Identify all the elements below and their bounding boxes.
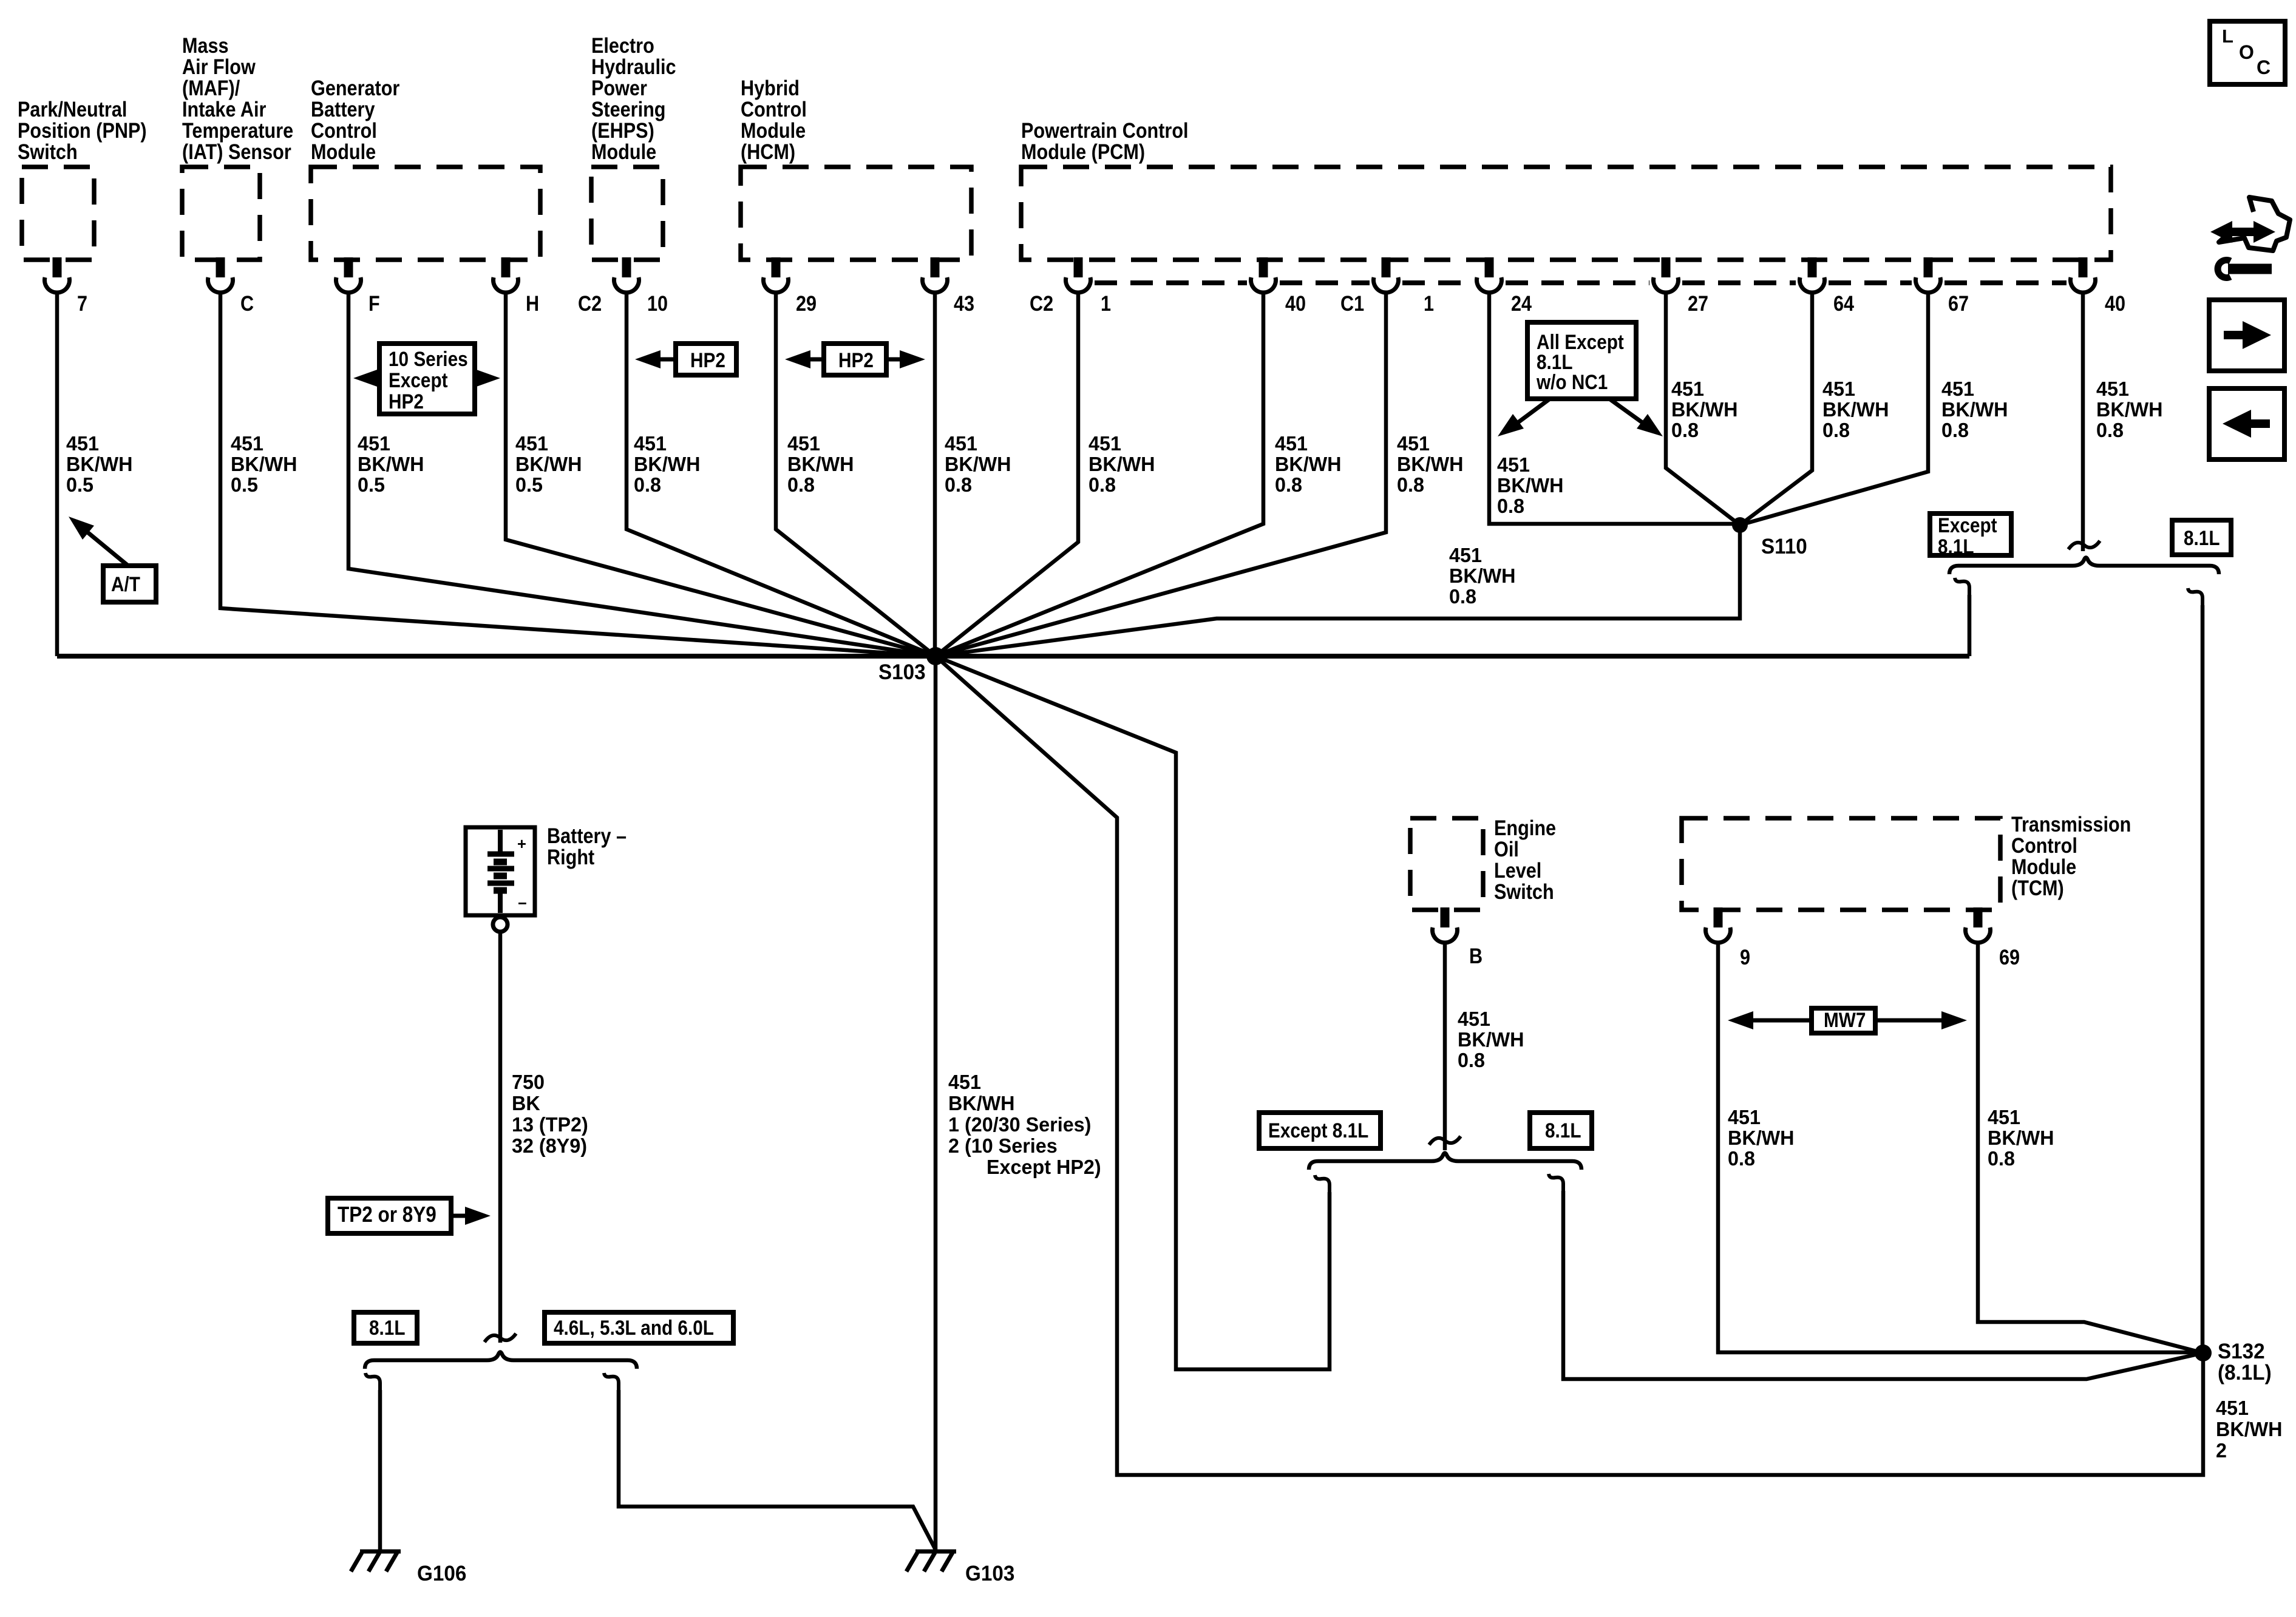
svg-text:Air Flow: Air Flow bbox=[182, 55, 256, 78]
svg-text:29: 29 bbox=[796, 291, 817, 315]
svg-text:Electro: Electro bbox=[591, 33, 654, 57]
svg-text:32 (8Y9): 32 (8Y9) bbox=[512, 1134, 587, 1157]
svg-text:BK/WH: BK/WH bbox=[1458, 1028, 1524, 1051]
svg-text:1: 1 bbox=[1424, 291, 1434, 315]
svg-text:BK/WH: BK/WH bbox=[358, 453, 424, 475]
svg-text:S132: S132 bbox=[2218, 1340, 2265, 1363]
svg-text:0.5: 0.5 bbox=[515, 473, 543, 496]
svg-text:10 Series: 10 Series bbox=[389, 347, 468, 370]
svg-text:BK/WH: BK/WH bbox=[2096, 398, 2163, 421]
svg-text:451: 451 bbox=[66, 432, 99, 455]
svg-text:BK/WH: BK/WH bbox=[2216, 1418, 2283, 1440]
svg-text:40: 40 bbox=[2105, 291, 2125, 315]
svg-text:2: 2 bbox=[2216, 1439, 2227, 1462]
svg-text:BK/WH: BK/WH bbox=[1941, 398, 2008, 421]
svg-text:BK/WH: BK/WH bbox=[231, 453, 297, 475]
svg-text:13 (TP2): 13 (TP2) bbox=[512, 1113, 588, 1136]
svg-text:L: L bbox=[2222, 25, 2233, 47]
svg-text:BK/WH: BK/WH bbox=[1089, 453, 1155, 475]
svg-text:451: 451 bbox=[515, 432, 548, 455]
svg-text:451: 451 bbox=[358, 432, 390, 455]
svg-text:24: 24 bbox=[1511, 291, 1532, 315]
svg-text:S103: S103 bbox=[878, 660, 926, 684]
svg-text:2 (10 Series: 2 (10 Series bbox=[948, 1134, 1058, 1157]
svg-text:Except HP2): Except HP2) bbox=[987, 1156, 1101, 1178]
svg-text:0.8: 0.8 bbox=[1397, 473, 1424, 496]
svg-text:F: F bbox=[369, 291, 380, 315]
svg-text:Switch: Switch bbox=[1494, 880, 1554, 903]
svg-text:Battery: Battery bbox=[311, 97, 375, 121]
svg-text:451: 451 bbox=[1458, 1008, 1490, 1030]
svg-text:0.8: 0.8 bbox=[1988, 1147, 2015, 1170]
svg-text:+: + bbox=[517, 836, 526, 853]
svg-text:Except: Except bbox=[389, 368, 448, 392]
svg-text:(HCM): (HCM) bbox=[741, 140, 795, 163]
svg-text:0.5: 0.5 bbox=[358, 473, 385, 496]
svg-text:Position (PNP): Position (PNP) bbox=[18, 118, 147, 142]
svg-text:O: O bbox=[2239, 41, 2254, 63]
svg-text:TP2 or 8Y9: TP2 or 8Y9 bbox=[338, 1202, 436, 1227]
svg-text:Engine: Engine bbox=[1494, 816, 1556, 839]
svg-text:Control: Control bbox=[2011, 833, 2077, 857]
svg-text:0.8: 0.8 bbox=[2096, 419, 2124, 441]
svg-text:0.8: 0.8 bbox=[1275, 473, 1302, 496]
svg-text:BK: BK bbox=[512, 1092, 540, 1114]
svg-text:B: B bbox=[1469, 944, 1483, 968]
svg-text:C1: C1 bbox=[1340, 291, 1364, 315]
svg-text:Powertrain Control: Powertrain Control bbox=[1021, 118, 1189, 142]
svg-text:BK/WH: BK/WH bbox=[1397, 453, 1464, 475]
svg-text:Oil: Oil bbox=[1494, 837, 1519, 861]
svg-text:(MAF)/: (MAF)/ bbox=[182, 76, 240, 100]
svg-text:Temperature: Temperature bbox=[182, 118, 293, 142]
svg-text:Level: Level bbox=[1494, 858, 1541, 882]
svg-text:G106: G106 bbox=[417, 1562, 466, 1585]
svg-text:451: 451 bbox=[2216, 1397, 2249, 1419]
svg-text:4.6L, 5.3L and 6.0L: 4.6L, 5.3L and 6.0L bbox=[554, 1316, 714, 1339]
svg-text:64: 64 bbox=[1833, 291, 1855, 315]
svg-text:1 (20/30 Series): 1 (20/30 Series) bbox=[948, 1113, 1091, 1136]
svg-text:451: 451 bbox=[2096, 378, 2129, 400]
svg-text:BK/WH: BK/WH bbox=[1728, 1127, 1795, 1149]
svg-text:7: 7 bbox=[77, 291, 87, 315]
svg-text:0.5: 0.5 bbox=[66, 473, 93, 496]
svg-text:BK/WH: BK/WH bbox=[1822, 398, 1889, 421]
svg-text:0.8: 0.8 bbox=[1671, 419, 1699, 441]
svg-text:67: 67 bbox=[1948, 291, 1969, 315]
svg-text:Switch: Switch bbox=[18, 140, 78, 163]
svg-text:Module: Module bbox=[311, 140, 376, 163]
svg-text:C2: C2 bbox=[578, 291, 602, 315]
svg-text:BK/WH: BK/WH bbox=[66, 453, 133, 475]
svg-text:Intake Air: Intake Air bbox=[182, 97, 267, 121]
svg-text:Except: Except bbox=[1938, 514, 1997, 537]
svg-text:S110: S110 bbox=[1761, 535, 1807, 558]
svg-text:Hydraulic: Hydraulic bbox=[591, 55, 676, 78]
svg-text:Module: Module bbox=[2011, 855, 2076, 878]
svg-text:1: 1 bbox=[1101, 291, 1111, 315]
svg-text:0.8: 0.8 bbox=[1458, 1049, 1485, 1071]
svg-text:BK/WH: BK/WH bbox=[1449, 564, 1516, 587]
svg-text:0.8: 0.8 bbox=[1497, 495, 1524, 517]
svg-text:Battery –: Battery – bbox=[547, 824, 627, 847]
svg-text:BK/WH: BK/WH bbox=[634, 453, 701, 475]
svg-text:HP2: HP2 bbox=[389, 390, 424, 413]
svg-text:451: 451 bbox=[231, 432, 263, 455]
svg-text:Module: Module bbox=[591, 140, 656, 163]
svg-text:451: 451 bbox=[945, 432, 977, 455]
svg-text:C2: C2 bbox=[1030, 291, 1053, 315]
svg-text:BK/WH: BK/WH bbox=[1497, 474, 1564, 497]
svg-text:MW7: MW7 bbox=[1824, 1008, 1866, 1031]
svg-text:G103: G103 bbox=[965, 1562, 1014, 1585]
svg-text:BK/WH: BK/WH bbox=[1988, 1127, 2054, 1149]
svg-text:451: 451 bbox=[948, 1071, 981, 1093]
svg-text:(TCM): (TCM) bbox=[2011, 876, 2064, 900]
svg-text:Transmission: Transmission bbox=[2011, 812, 2131, 836]
svg-text:69: 69 bbox=[1999, 945, 2020, 969]
svg-text:BK/WH: BK/WH bbox=[787, 453, 854, 475]
svg-text:8.1L: 8.1L bbox=[2184, 526, 2220, 549]
svg-text:C: C bbox=[2257, 56, 2271, 78]
svg-text:8.1L: 8.1L bbox=[1545, 1119, 1581, 1142]
svg-text:451: 451 bbox=[1497, 453, 1530, 476]
svg-text:10: 10 bbox=[647, 291, 668, 315]
svg-text:(8.1L): (8.1L) bbox=[2218, 1361, 2272, 1385]
svg-text:451: 451 bbox=[1089, 432, 1121, 455]
svg-text:451: 451 bbox=[1397, 432, 1430, 455]
svg-text:0.8: 0.8 bbox=[787, 473, 815, 496]
svg-text:Except 8.1L: Except 8.1L bbox=[1268, 1119, 1368, 1142]
svg-text:Power: Power bbox=[591, 76, 647, 100]
svg-text:Park/Neutral: Park/Neutral bbox=[18, 97, 127, 121]
svg-text:40: 40 bbox=[1285, 291, 1306, 315]
svg-text:0.5: 0.5 bbox=[231, 473, 258, 496]
svg-text:0.8: 0.8 bbox=[1941, 419, 1969, 441]
svg-text:451: 451 bbox=[1449, 544, 1482, 566]
svg-text:Mass: Mass bbox=[182, 33, 229, 57]
svg-text:0.8: 0.8 bbox=[634, 473, 661, 496]
svg-text:Right: Right bbox=[547, 845, 594, 869]
svg-text:C: C bbox=[240, 291, 254, 315]
svg-text:BK/WH: BK/WH bbox=[1275, 453, 1342, 475]
svg-text:−: − bbox=[518, 895, 527, 912]
svg-text:Steering: Steering bbox=[591, 97, 666, 121]
svg-text:BK/WH: BK/WH bbox=[948, 1092, 1015, 1114]
svg-text:Control: Control bbox=[311, 118, 377, 142]
svg-text:BK/WH: BK/WH bbox=[945, 453, 1011, 475]
svg-text:0.8: 0.8 bbox=[945, 473, 972, 496]
svg-text:(IAT) Sensor: (IAT) Sensor bbox=[182, 140, 291, 163]
svg-text:A/T: A/T bbox=[111, 572, 140, 595]
svg-text:9: 9 bbox=[1740, 945, 1750, 969]
svg-text:750: 750 bbox=[512, 1071, 545, 1093]
svg-text:451: 451 bbox=[634, 432, 667, 455]
svg-text:8.1L: 8.1L bbox=[1938, 535, 1974, 558]
svg-text:Module (PCM): Module (PCM) bbox=[1021, 140, 1145, 163]
svg-text:451: 451 bbox=[1671, 378, 1704, 400]
svg-text:8.1L: 8.1L bbox=[369, 1316, 406, 1339]
svg-text:27: 27 bbox=[1688, 291, 1708, 315]
svg-text:BK/WH: BK/WH bbox=[515, 453, 582, 475]
svg-text:451: 451 bbox=[1728, 1106, 1761, 1128]
svg-text:Module: Module bbox=[741, 118, 806, 142]
svg-text:0.8: 0.8 bbox=[1089, 473, 1116, 496]
svg-text:451: 451 bbox=[1275, 432, 1308, 455]
svg-text:451: 451 bbox=[1941, 378, 1974, 400]
svg-text:HP2: HP2 bbox=[690, 348, 725, 371]
svg-text:H: H bbox=[526, 291, 539, 315]
svg-text:0.8: 0.8 bbox=[1449, 585, 1476, 608]
svg-text:HP2: HP2 bbox=[838, 348, 874, 371]
svg-text:BK/WH: BK/WH bbox=[1671, 398, 1738, 421]
svg-text:Control: Control bbox=[741, 97, 807, 121]
svg-text:451: 451 bbox=[1822, 378, 1855, 400]
svg-text:w/o NC1: w/o NC1 bbox=[1536, 370, 1608, 393]
svg-text:(EHPS): (EHPS) bbox=[591, 118, 654, 142]
svg-text:Generator: Generator bbox=[311, 76, 400, 100]
svg-text:0.8: 0.8 bbox=[1822, 419, 1850, 441]
svg-text:43: 43 bbox=[954, 291, 974, 315]
svg-text:Hybrid: Hybrid bbox=[741, 76, 800, 100]
svg-text:0.8: 0.8 bbox=[1728, 1147, 1755, 1170]
svg-text:451: 451 bbox=[787, 432, 820, 455]
svg-text:451: 451 bbox=[1988, 1106, 2020, 1128]
